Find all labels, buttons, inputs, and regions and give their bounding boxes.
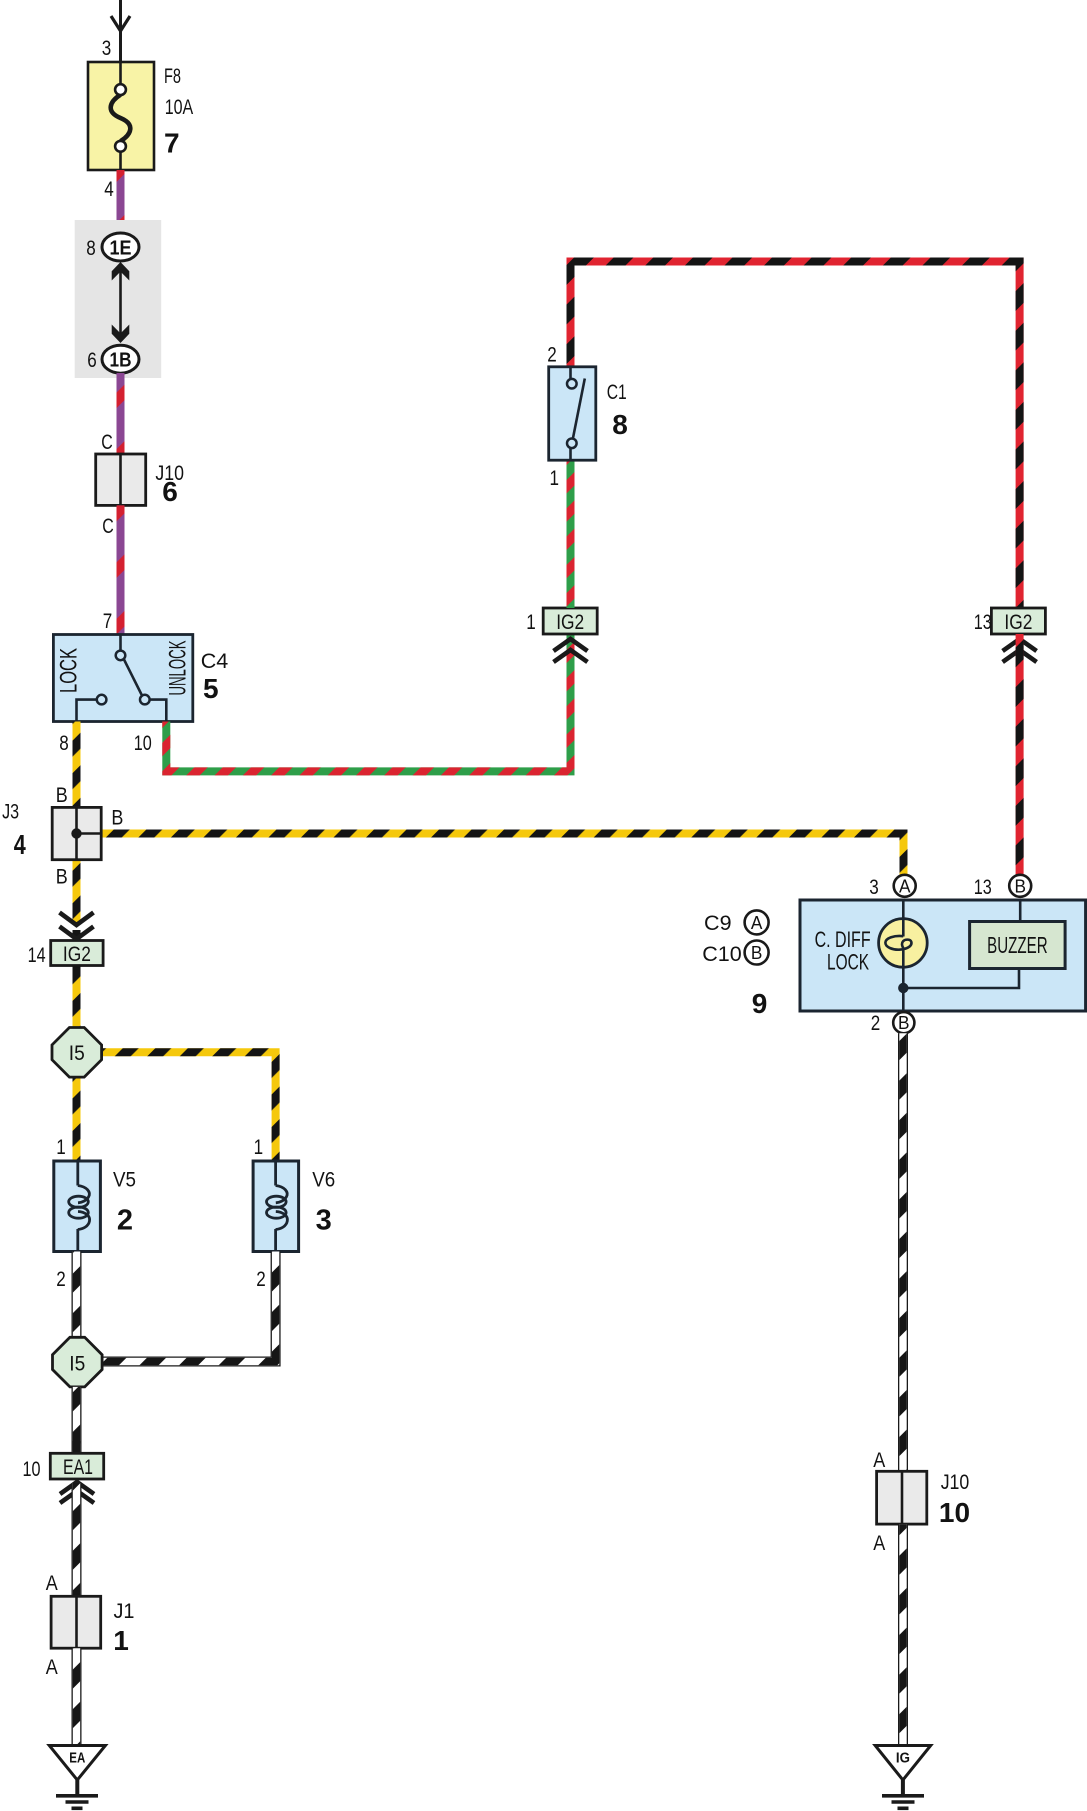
svg-text:10: 10 — [134, 731, 152, 755]
arrowhead down — [112, 325, 130, 344]
svg-text:A: A — [899, 876, 911, 896]
svg-text:EA: EA — [69, 1751, 85, 1767]
wire J3 down branch (yellow/black) — [73, 860, 81, 925]
wire battery feed into fuse — [119, 0, 122, 62]
splice I5 lower — [53, 1337, 103, 1387]
svg-text:5: 5 — [203, 673, 219, 704]
svg-text:1: 1 — [56, 1135, 66, 1159]
svg-text:UNLOCK: UNLOCK — [165, 641, 192, 696]
svg-text:7: 7 — [103, 609, 113, 633]
wire J1 to ground EA (white/black) — [72, 1648, 82, 1745]
svg-text:13: 13 — [974, 610, 992, 634]
svg-text:10: 10 — [23, 1457, 41, 1481]
wire I5 lower to EA1 (white/black) — [72, 1387, 82, 1453]
harness pass-through gray panel — [75, 220, 162, 378]
arrowhead on feed wire — [111, 16, 130, 31]
svg-text:2: 2 — [547, 343, 557, 367]
svg-text:C4: C4 — [201, 649, 229, 673]
svg-text:C: C — [101, 430, 113, 454]
wire I5 right branch to V6 pin1 (yellow/black) — [100, 1052, 276, 1162]
wire 1B to J10 (violet/red) — [117, 373, 125, 454]
wire J3 right branch to unit pin A (yellow/black) — [101, 834, 903, 875]
diff lock indicator unit (9) — [800, 900, 1086, 1012]
svg-text:B: B — [56, 783, 68, 807]
net label EA1 pin 10 — [50, 1453, 103, 1479]
svg-text:C9: C9 — [704, 911, 731, 935]
svg-text:I5: I5 — [69, 1352, 85, 1375]
svg-text:A: A — [46, 1655, 59, 1679]
svg-text:B: B — [1014, 876, 1026, 896]
svg-text:4: 4 — [104, 177, 114, 201]
svg-text:IG2: IG2 — [1004, 611, 1032, 634]
wire C1 pin2 over the top to IG2 pin13 (red/black) — [571, 262, 1020, 609]
wire I5 down to V5 pin1 (yellow/black) — [73, 1075, 81, 1162]
indicator lamp — [879, 919, 928, 968]
svg-text:10: 10 — [939, 1497, 970, 1528]
wire V5 pin2 to I5 lower (white/black) — [72, 1252, 82, 1339]
svg-text:C1: C1 — [607, 380, 627, 404]
ground IG — [875, 1746, 931, 1809]
junction connector J3 (4) — [52, 807, 101, 859]
svg-text:1: 1 — [549, 466, 559, 490]
svg-text:1E: 1E — [110, 238, 132, 260]
wire C4 pin8 to J3 (yellow/black) — [73, 722, 81, 808]
svg-text:8: 8 — [612, 409, 628, 440]
svg-text:A: A — [873, 1448, 886, 1472]
svg-text:LOCK: LOCK — [827, 950, 869, 975]
svg-text:10A: 10A — [165, 95, 194, 119]
chevrons below IG2 pin1 — [554, 639, 588, 662]
svg-text:8: 8 — [86, 236, 96, 260]
lock switch C4 (5) — [53, 635, 192, 722]
svg-text:B: B — [898, 1013, 910, 1033]
connector J1 (1) — [51, 1596, 101, 1648]
svg-text:1: 1 — [113, 1625, 129, 1656]
chevrons below EA1 — [60, 1482, 94, 1503]
svg-text:A: A — [751, 913, 763, 933]
svg-text:3: 3 — [316, 1204, 332, 1236]
wire J10 to C4 pin 7 (violet/red) — [117, 505, 125, 634]
svg-text:F8: F8 — [164, 64, 181, 88]
svg-text:I5: I5 — [69, 1042, 85, 1065]
net label IG2 pin 1 — [543, 608, 597, 634]
buzzer box — [970, 922, 1066, 969]
svg-text:7: 7 — [164, 128, 180, 159]
link line between 1E and 1B — [119, 271, 122, 334]
chevrons into IG2 pin14 — [60, 913, 94, 940]
ground EA — [49, 1746, 105, 1809]
svg-text:6: 6 — [87, 348, 97, 372]
svg-text:3: 3 — [102, 36, 112, 60]
wire EA1 to J1 (white/black) — [72, 1483, 82, 1596]
svg-text:A: A — [873, 1531, 886, 1555]
connector oval 1B — [102, 345, 139, 373]
svg-text:IG2: IG2 — [63, 943, 91, 966]
wire IG2 pin1 up to C1 pin1 (green/red) — [567, 460, 575, 608]
svg-text:C10: C10 — [702, 942, 741, 966]
svg-text:C: C — [102, 514, 114, 538]
svg-text:2: 2 — [117, 1204, 133, 1236]
solenoid V6 (3) — [253, 1161, 299, 1252]
svg-text:13: 13 — [974, 875, 992, 899]
wire V6 pin2 to I5 lower right (white/black) — [102, 1252, 276, 1362]
svg-text:1B: 1B — [110, 350, 132, 372]
svg-text:9: 9 — [752, 988, 768, 1019]
connector oval 1E — [102, 233, 139, 261]
chevrons below IG2 pin13 — [1003, 639, 1037, 662]
svg-text:1: 1 — [526, 610, 536, 634]
wire fuse to 1E (violet/red) — [117, 170, 125, 234]
splice I5 upper — [52, 1028, 102, 1078]
wire J10 to ground IG (white/black) — [898, 1524, 908, 1745]
svg-text:J3: J3 — [2, 800, 19, 824]
svg-text:4: 4 — [14, 829, 26, 860]
svg-text:EA1: EA1 — [63, 1456, 93, 1479]
svg-text:LOCK: LOCK — [56, 648, 83, 693]
svg-text:C. DIFF: C. DIFF — [815, 927, 871, 952]
wire unit pin B2 to J10 (white/black) — [898, 1033, 908, 1471]
svg-text:14: 14 — [28, 943, 46, 967]
svg-text:IG: IG — [896, 1751, 910, 1767]
solenoid V5 (2) — [54, 1161, 101, 1252]
svg-text:8: 8 — [59, 731, 69, 755]
pin B circle (13) — [1009, 875, 1031, 897]
svg-text:J1: J1 — [114, 1599, 135, 1623]
svg-text:B: B — [751, 943, 763, 963]
svg-text:J10: J10 — [941, 1470, 970, 1494]
svg-text:3: 3 — [869, 875, 879, 899]
svg-text:6: 6 — [162, 476, 178, 507]
switch C1 (8) — [549, 367, 596, 460]
net label IG2 pin 14 — [51, 941, 103, 967]
wire IG2 pin13 to unit pin B (red/black) — [1016, 634, 1024, 875]
svg-text:BUZZER: BUZZER — [987, 932, 1048, 958]
arrowhead up — [112, 262, 130, 281]
svg-text:2: 2 — [256, 1267, 266, 1291]
svg-text:2: 2 — [871, 1011, 881, 1035]
wire C4 pin10 to IG2 pin1 (green/red) — [166, 634, 570, 771]
svg-text:IG2: IG2 — [556, 611, 584, 634]
svg-text:2: 2 — [56, 1267, 66, 1291]
net label IG2 pin 13 — [991, 608, 1045, 634]
svg-text:A: A — [46, 1571, 59, 1595]
svg-text:B: B — [111, 806, 123, 830]
svg-text:1: 1 — [254, 1135, 264, 1159]
svg-text:V6: V6 — [312, 1167, 335, 1191]
pin A circle (3) — [894, 875, 916, 897]
fuse F8 box — [88, 62, 154, 170]
svg-text:V5: V5 — [113, 1167, 136, 1191]
connector J10 (6) — [96, 454, 146, 505]
svg-text:B: B — [56, 864, 68, 888]
connector J10 (10) — [877, 1471, 927, 1524]
wire IG2 to I5 (yellow/black) — [73, 966, 81, 1031]
pin B circle (2) — [893, 1012, 914, 1033]
